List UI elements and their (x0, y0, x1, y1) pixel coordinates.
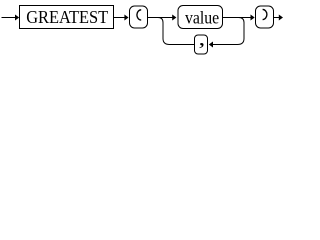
svg-text:value: value (185, 7, 219, 27)
svg-text:GREATEST: GREATEST (26, 7, 108, 27)
svg-text:,: , (199, 28, 206, 50)
